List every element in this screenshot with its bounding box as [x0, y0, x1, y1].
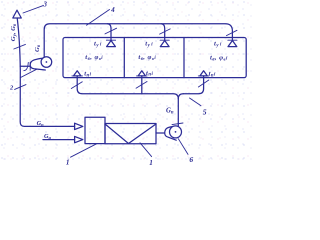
svg-text:tпi: tпi	[84, 71, 91, 79]
svg-text:3: 3	[43, 2, 48, 9]
svg-text:5: 5	[203, 108, 207, 117]
svg-text:tв, φвi: tв, φвi	[85, 54, 103, 62]
svg-text:tв, φвi: tв, φвi	[210, 54, 228, 62]
svg-text:tпi: tпi	[146, 70, 153, 78]
svg-text:Gп: Gп	[166, 108, 174, 116]
svg-text:1: 1	[66, 159, 70, 166]
svg-text:Gу, Gв: Gу, Gв	[10, 23, 18, 41]
svg-text:1: 1	[149, 159, 153, 166]
svg-text:Gв: Gв	[34, 44, 42, 52]
svg-text:4: 4	[110, 7, 115, 14]
svg-text:Gп: Gп	[37, 120, 44, 127]
svg-text:2: 2	[9, 85, 14, 92]
svg-text:tуi: tуi	[145, 40, 153, 48]
svg-text:Gн: Gн	[44, 133, 51, 140]
svg-text:tуi: tуi	[214, 41, 222, 49]
svg-text:tуi: tуi	[94, 40, 102, 48]
svg-text:tпi: tпi	[209, 71, 216, 79]
svg-text:6: 6	[189, 155, 193, 164]
svg-text:tв, φвi: tв, φвi	[138, 54, 156, 62]
